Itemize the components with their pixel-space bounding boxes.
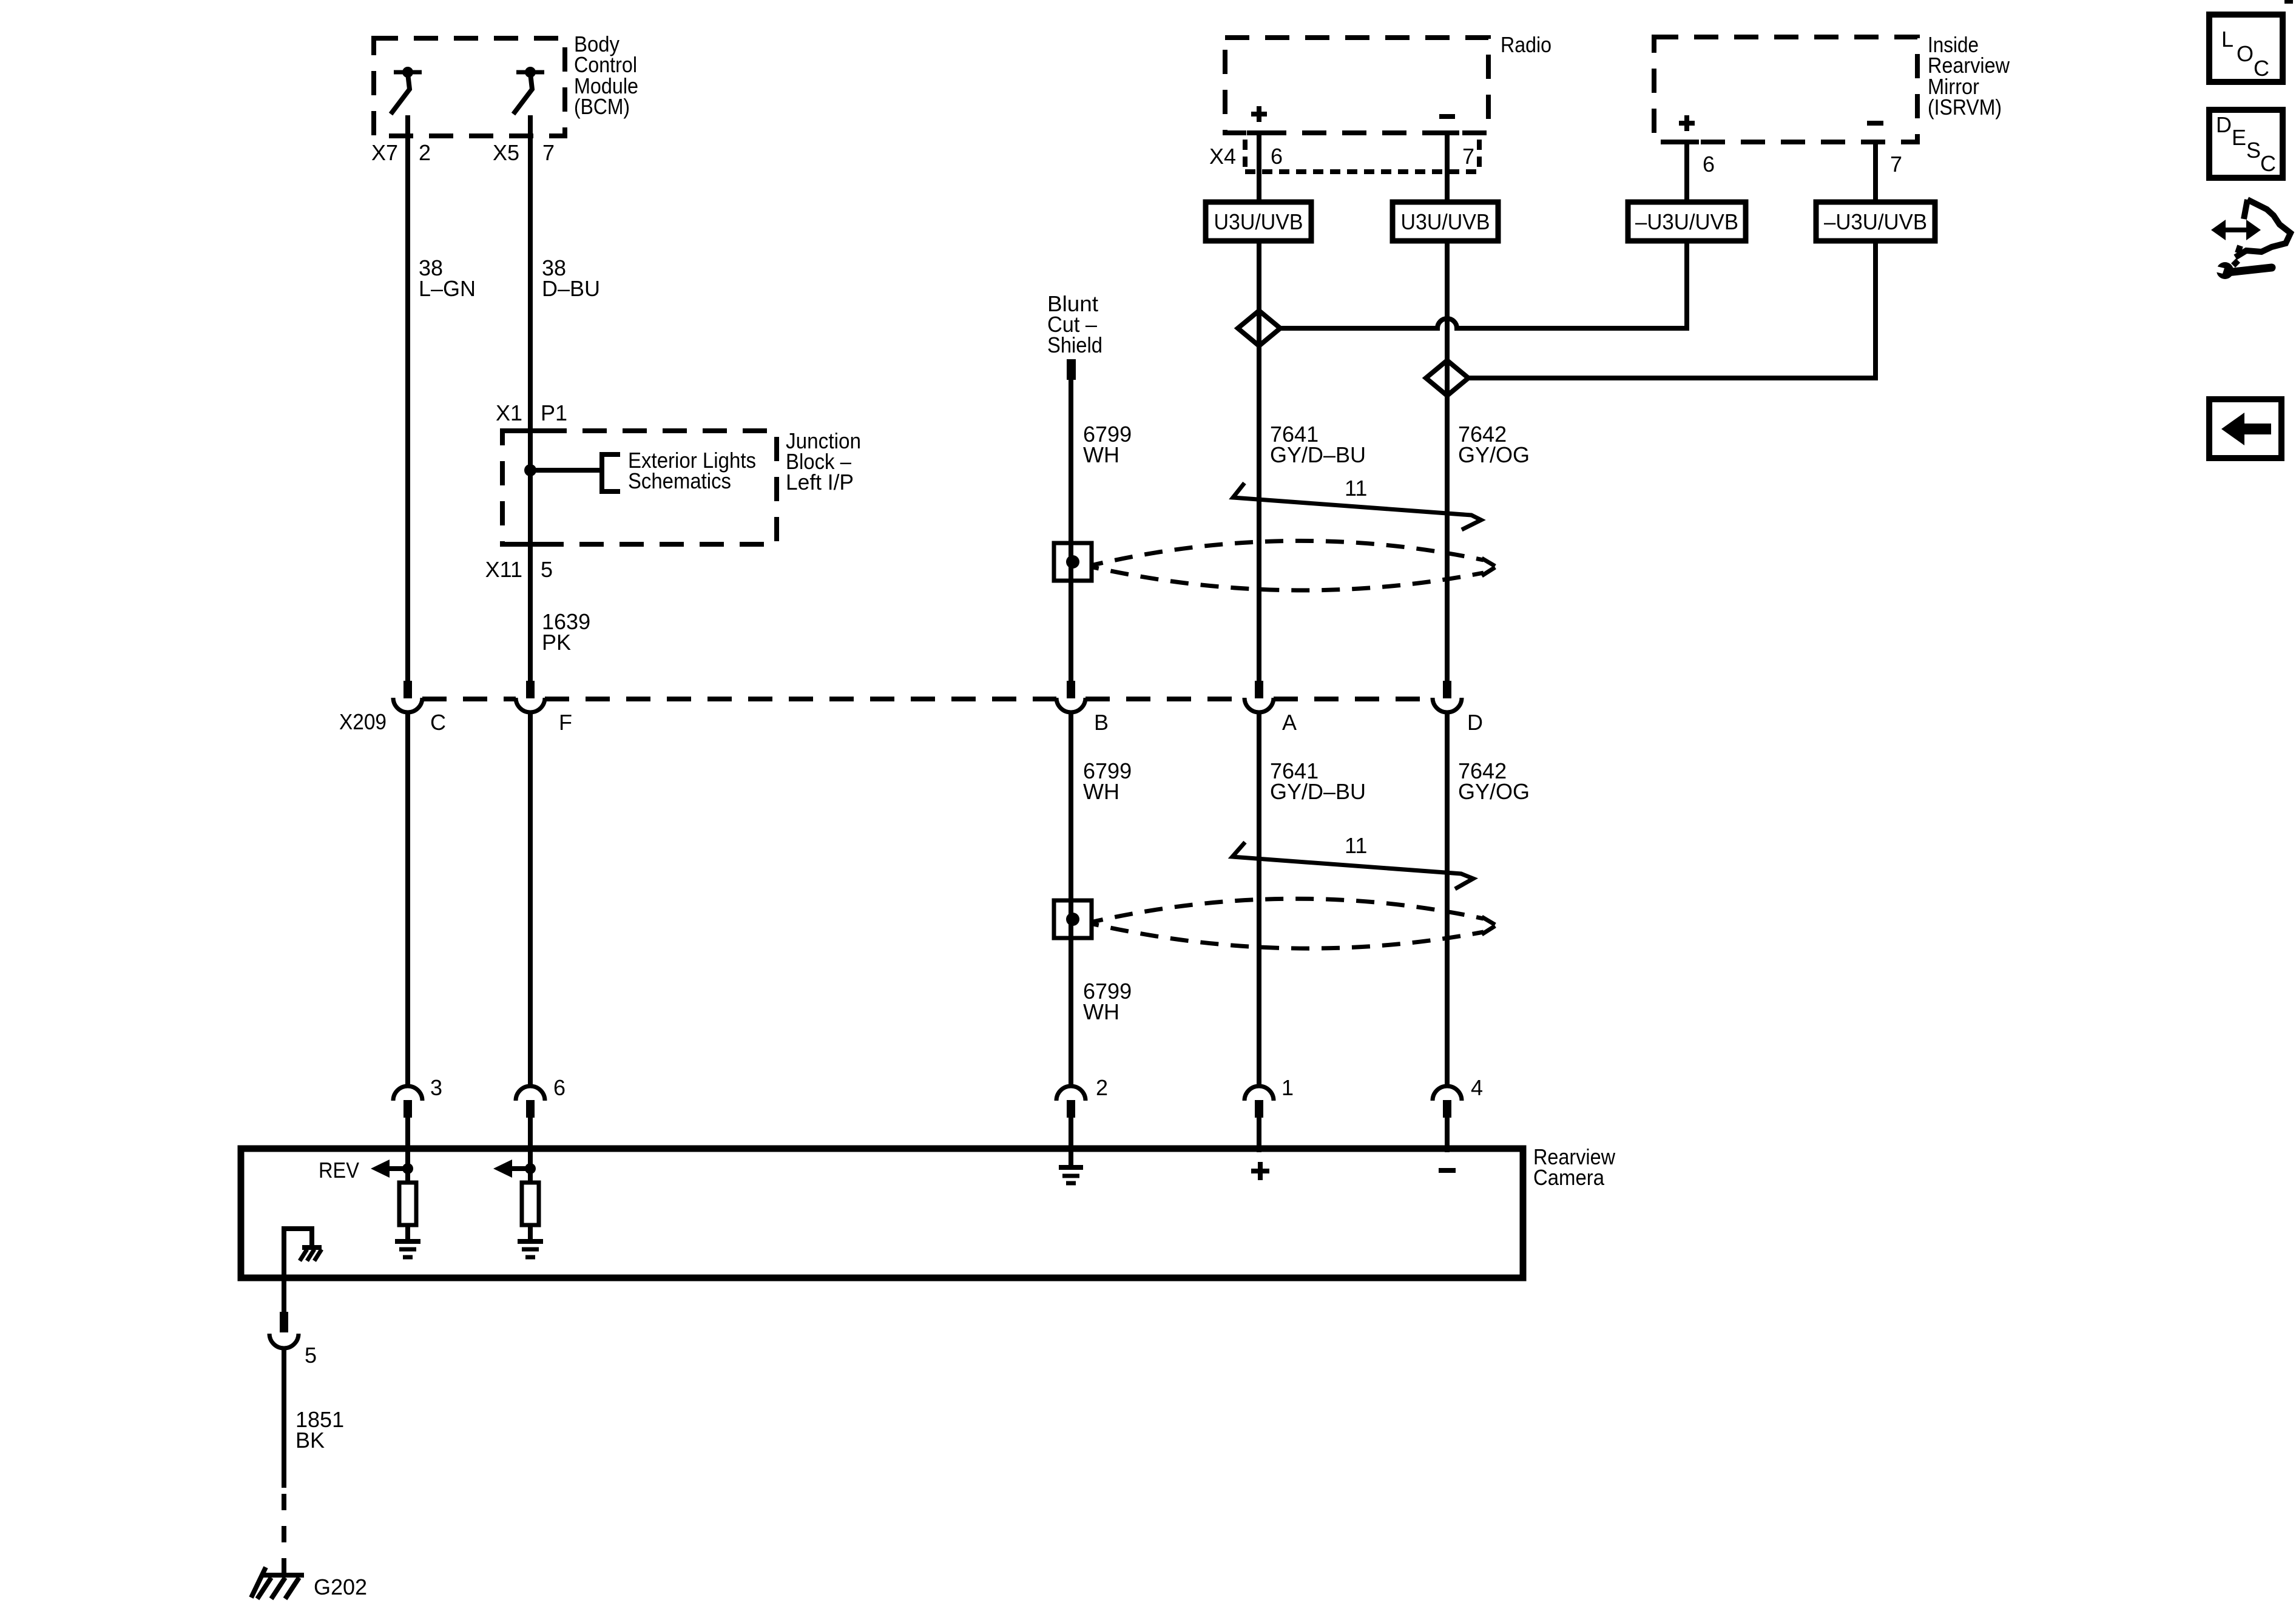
connector X5 pin 7 label (493, 140, 555, 165)
switch S2 inside BCM (513, 67, 544, 114)
wire F upper segment (BCM X5-7 to X209) (528, 115, 533, 681)
svg-text:11: 11 (1345, 476, 1367, 501)
svg-text:5: 5 (541, 557, 553, 582)
svg-text:O: O (2237, 41, 2254, 66)
radio minus terminal (1439, 114, 1455, 119)
U3U/UVB code box 2 (1393, 202, 1498, 241)
splice wire from diamond 1 to ISRVM+ branch with hop over wire D (1280, 319, 1687, 328)
svg-text:GY/D–BU: GY/D–BU (1270, 779, 1366, 804)
twisted pair leader 11 upper (1233, 476, 1481, 530)
svg-text:D: D (1467, 710, 1483, 735)
svg-text:7: 7 (1462, 144, 1474, 169)
connector X4 label (1209, 144, 1474, 169)
svg-text:C: C (2260, 151, 2276, 176)
switch S1 inside BCM (391, 67, 422, 114)
ground symbol under R2 (518, 1241, 543, 1257)
svg-text:Camera: Camera (1533, 1165, 1605, 1190)
svg-text:G202: G202 (314, 1575, 367, 1599)
blunt cut terminal bar (1067, 359, 1076, 380)
svg-text:11: 11 (1345, 833, 1367, 858)
ISRVM plus terminal (1679, 115, 1695, 131)
edge dash at radio pin 6 crossing (1247, 130, 1271, 135)
node: junction dot in block (524, 464, 536, 476)
X209 pin D symbol (1433, 681, 1462, 712)
X209 inline connector dashed line (422, 697, 1433, 701)
junction block label (786, 428, 861, 495)
shield drain wire lower segment (1069, 714, 1073, 1084)
wire label 7641 GY/D-BU lower (1270, 758, 1366, 804)
ground G202 symbol (251, 1567, 304, 1599)
wire from ISRVM pin 7 (1873, 142, 1878, 380)
svg-text:E: E (2232, 125, 2246, 150)
svg-text:U3U/UVB: U3U/UVB (1401, 209, 1490, 234)
svg-text:2: 2 (1096, 1075, 1108, 1100)
shield tap square 1 (1054, 543, 1092, 581)
svg-text:Left I/P: Left I/P (786, 470, 854, 495)
svg-text:6: 6 (1703, 152, 1715, 177)
X209 pin B symbol (1056, 681, 1086, 712)
ISRVM minus terminal (1867, 121, 1883, 126)
svg-text:F: F (559, 710, 572, 735)
wire label 1851 BK (295, 1407, 344, 1453)
ground symbol under shield pin 2 (1059, 1167, 1083, 1183)
connector X7 pin 2 label (371, 140, 431, 165)
twisted pair lens upper (1093, 541, 1495, 590)
wire label 38 L-GN (419, 255, 476, 301)
junction block dashed box (502, 431, 777, 544)
splice wire from diamond 2 to ISRVM- branch (1468, 376, 1876, 380)
ground wire dashed segment (282, 1494, 286, 1573)
svg-text:5: 5 (305, 1343, 317, 1368)
connector service icon double arrow (2211, 220, 2261, 240)
wire D lower segment (1445, 714, 1450, 1084)
camera plus terminal (1251, 1162, 1269, 1180)
connector service icon wrench (2210, 258, 2272, 279)
LOC icon box (2209, 15, 2283, 82)
camera pin 4 connector (1433, 1086, 1462, 1152)
svg-text:2: 2 (419, 140, 431, 165)
svg-text:D–BU: D–BU (542, 276, 600, 301)
camera pin 3 connector (393, 1086, 422, 1183)
svg-text:Radio: Radio (1501, 32, 1551, 57)
svg-text:Schematics: Schematics (628, 468, 731, 493)
svg-text:BK: BK (295, 1428, 325, 1453)
svg-text:X5: X5 (493, 140, 519, 165)
REV arrow 2 (493, 1160, 536, 1178)
wire label 7641 GY/D-BU upper (1270, 422, 1366, 467)
svg-text:C: C (2254, 56, 2269, 81)
wire label 6799 WH lower (1083, 979, 1132, 1024)
camera pin 2 connector (1056, 1086, 1086, 1165)
edge dash at radio pin 7 crossing (1435, 130, 1459, 135)
svg-text:7: 7 (542, 140, 555, 165)
svg-text:D: D (2216, 112, 2232, 137)
wire label 6799 WH upper (1083, 422, 1132, 467)
camera pin 5 connector (269, 1312, 299, 1348)
connector X4 fine-dash box (1245, 140, 1479, 172)
DESC icon box (2209, 110, 2283, 178)
wire to exterior lights reference (530, 468, 602, 473)
camera ground wire below box (282, 1278, 286, 1312)
svg-text:PK: PK (542, 630, 571, 655)
wire label 1639 PK (542, 609, 590, 655)
back arrow icon box (2209, 399, 2281, 458)
svg-text:WH: WH (1083, 779, 1119, 804)
svg-text:1: 1 (1281, 1075, 1294, 1100)
U3U/UVB code box 1 (1206, 202, 1311, 241)
camera minus terminal (1439, 1168, 1456, 1173)
edge dash at junction block top crossing (518, 428, 542, 433)
X209 pin C symbol (393, 681, 422, 712)
shield drain wire upper segment (1069, 380, 1073, 681)
svg-text:U3U/UVB: U3U/UVB (1214, 209, 1303, 234)
wire F lower segment (528, 714, 533, 1084)
svg-text:WH: WH (1083, 999, 1119, 1024)
connector X1 P1 label (496, 400, 567, 425)
wire C upper segment (BCM X7-2 to X209) (405, 115, 410, 681)
svg-text:6: 6 (1271, 144, 1283, 169)
svg-text:Shield: Shield (1047, 333, 1102, 357)
svg-text:–U3U/UVB: –U3U/UVB (1824, 209, 1927, 234)
wire A upper segment (radio + to X209) (1257, 133, 1261, 681)
blunt cut shield label (1047, 291, 1102, 357)
wire label 6799 WH middle (1083, 758, 1132, 804)
X209 pin F symbol (516, 681, 545, 712)
ground wire 1851 BK solid segment (282, 1348, 286, 1488)
wire from ISRVM pin 6 (1684, 142, 1689, 331)
svg-text:(ISRVM): (ISRVM) (1928, 95, 2002, 120)
resistor R1 (399, 1169, 416, 1239)
svg-text:S: S (2246, 138, 2261, 163)
page corner mark (2284, 0, 2293, 4)
rearview camera box (241, 1149, 1523, 1278)
wire label 38 D-BU (542, 255, 600, 301)
svg-text:REV: REV (319, 1158, 359, 1183)
svg-text:X209: X209 (339, 709, 387, 734)
wire label 7642 GY/OG upper (1458, 422, 1530, 467)
BCM module dashed box (374, 38, 565, 136)
chassis ground symbol inside camera (300, 1247, 322, 1261)
-U3U/UVB code box 3 (1628, 202, 1746, 241)
svg-text:B: B (1094, 710, 1109, 735)
wire D upper segment (radio - to X209) (1445, 133, 1450, 681)
twisted pair leader 11 lower (1232, 833, 1473, 889)
svg-text:X7: X7 (371, 140, 398, 165)
svg-text:GY/D–BU: GY/D–BU (1270, 442, 1366, 467)
svg-text:4: 4 (1471, 1075, 1483, 1100)
svg-text:GY/OG: GY/OG (1458, 442, 1530, 467)
BCM label (574, 32, 638, 119)
Radio dashed box (1225, 38, 1488, 133)
wire C lower segment (405, 714, 410, 1084)
camera pin 1 connector (1244, 1086, 1274, 1152)
svg-text:(BCM): (BCM) (574, 94, 630, 119)
X209 pin A symbol (1244, 681, 1274, 712)
svg-text:3: 3 (430, 1075, 442, 1100)
svg-text:6: 6 (553, 1075, 566, 1100)
splice diamond 2 on wire D (1426, 360, 1468, 396)
chassis ground wire inside camera (284, 1229, 312, 1278)
twisted pair lens lower (1093, 899, 1495, 948)
radio plus terminal (1251, 106, 1267, 122)
svg-text:P1: P1 (541, 400, 567, 425)
REV arrow 1 (371, 1160, 413, 1178)
shield tap square 2 (1054, 900, 1092, 938)
svg-text:A: A (1282, 710, 1297, 735)
svg-text:WH: WH (1083, 442, 1119, 467)
edge dash at junction block bottom crossing (518, 542, 542, 547)
connector service icon outline (2235, 200, 2291, 257)
svg-text:C: C (430, 710, 446, 735)
svg-text:L: L (2221, 27, 2234, 52)
connector X11 pin 5 label (485, 557, 553, 582)
Exterior Lights Schematics label (628, 448, 756, 493)
svg-text:X4: X4 (1209, 144, 1236, 169)
svg-text:X1: X1 (496, 400, 522, 425)
ISRVM dashed box (1654, 37, 1917, 142)
-U3U/UVB code box 4 (1816, 202, 1935, 241)
rearview camera label (1533, 1144, 1616, 1190)
bracket symbol (schematic reference) (602, 454, 620, 491)
splice diamond 1 on wire A (1238, 311, 1280, 346)
svg-text:GY/OG: GY/OG (1458, 779, 1530, 804)
svg-text:X11: X11 (485, 557, 522, 582)
ISRVM label (1928, 32, 2010, 120)
camera pin 6 connector (516, 1086, 545, 1183)
ground symbol under R1 (395, 1241, 420, 1257)
svg-text:–U3U/UVB: –U3U/UVB (1635, 209, 1738, 234)
wire label 7642 GY/OG lower (1458, 758, 1530, 804)
resistor R2 (522, 1169, 539, 1239)
wire A lower segment (1257, 714, 1261, 1084)
edge dash at ISRVM pin 6 crossing (1675, 140, 1699, 144)
svg-text:7: 7 (1890, 152, 1902, 177)
svg-text:L–GN: L–GN (419, 276, 476, 301)
